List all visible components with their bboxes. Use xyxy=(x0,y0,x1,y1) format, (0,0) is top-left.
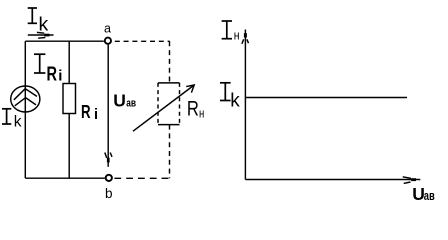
wire bottom horizontal (left rail to node b) xyxy=(25,177,105,179)
svg-text:i: i xyxy=(94,107,98,123)
current source arrow chevron upper xyxy=(14,89,37,100)
wire Ri branch upper xyxy=(68,41,70,83)
svg-text:ав: ав xyxy=(126,98,136,110)
label In (graph y axis): serif I glyph xyxy=(222,21,232,39)
graph X axis xyxy=(245,179,420,181)
wire left vertical upper (top rail down to current source) xyxy=(24,41,26,86)
Uab arrow head right wing xyxy=(110,153,112,157)
current direction arrow Ik lower wing xyxy=(38,37,45,40)
wire dashed vertical upper (to Rn top) xyxy=(169,41,171,82)
resistor Rn box (top edge) xyxy=(158,82,180,84)
graph Y axis arrow left wing xyxy=(242,39,244,44)
current direction arrow Ik line xyxy=(28,34,54,36)
label IRi: serif I glyph xyxy=(34,54,45,73)
svg-text:R: R xyxy=(81,101,91,122)
Uab arrow head chunk xyxy=(107,158,110,163)
svg-text:н: н xyxy=(234,29,240,43)
Uab arrow head left wing xyxy=(105,153,107,158)
variable resistor arrow head xyxy=(186,85,194,93)
resistor Rn box (bottom edge) xyxy=(158,124,180,126)
wire current source vertical through xyxy=(24,86,26,112)
wire dashed bottom (node b to load branch) xyxy=(114,177,169,179)
resistor Ri xyxy=(63,84,76,114)
current source circle xyxy=(11,86,40,112)
svg-text:ав: ав xyxy=(424,188,435,203)
Uab arrow line (node a to node b) xyxy=(107,45,109,167)
node b xyxy=(106,175,112,181)
graph X axis arrow chunk xyxy=(411,178,416,181)
graph Ik level line xyxy=(245,97,407,99)
label Ik bottom-left: serif I glyph xyxy=(2,109,11,124)
svg-text:a: a xyxy=(104,21,111,35)
variable resistor arrow shaft xyxy=(133,85,194,131)
current direction arrow Ik head chunk xyxy=(44,34,49,37)
svg-text:k: k xyxy=(14,114,22,131)
svg-text:н: н xyxy=(199,106,204,120)
graph Y axis arrow right wing xyxy=(247,39,249,43)
label Ik (graph level): serif I glyph xyxy=(220,83,231,101)
svg-text:i: i xyxy=(58,68,62,85)
svg-text:k: k xyxy=(39,13,49,35)
wire left vertical lower (current source to bottom rail) xyxy=(24,112,26,178)
current direction arrow Ik upper wing xyxy=(37,31,44,34)
graph X axis arrow upper wing xyxy=(403,177,411,179)
svg-text:b: b xyxy=(105,186,113,201)
svg-text:U: U xyxy=(113,91,126,111)
svg-text:k: k xyxy=(230,90,240,111)
current source arrow chevron lower xyxy=(15,98,36,106)
svg-text:R: R xyxy=(187,97,199,121)
label Ik top-left: serif I glyph xyxy=(28,8,37,23)
wire dashed top (node a to load branch) xyxy=(115,40,170,42)
svg-text:R: R xyxy=(47,64,58,86)
resistor Rn box (right dashed side) xyxy=(179,83,181,125)
graph X axis arrow lower wing xyxy=(404,182,411,183)
wire Ri branch lower xyxy=(68,114,70,179)
graph Y axis arrow chunk xyxy=(244,33,247,37)
node a xyxy=(105,38,111,44)
graph Y axis xyxy=(244,30,246,180)
resistor Rn box (left dashed side) xyxy=(157,83,159,125)
wire top horizontal (left rail to node a) xyxy=(25,40,104,42)
wire dashed vertical lower (Rn bottom down) xyxy=(169,125,171,179)
